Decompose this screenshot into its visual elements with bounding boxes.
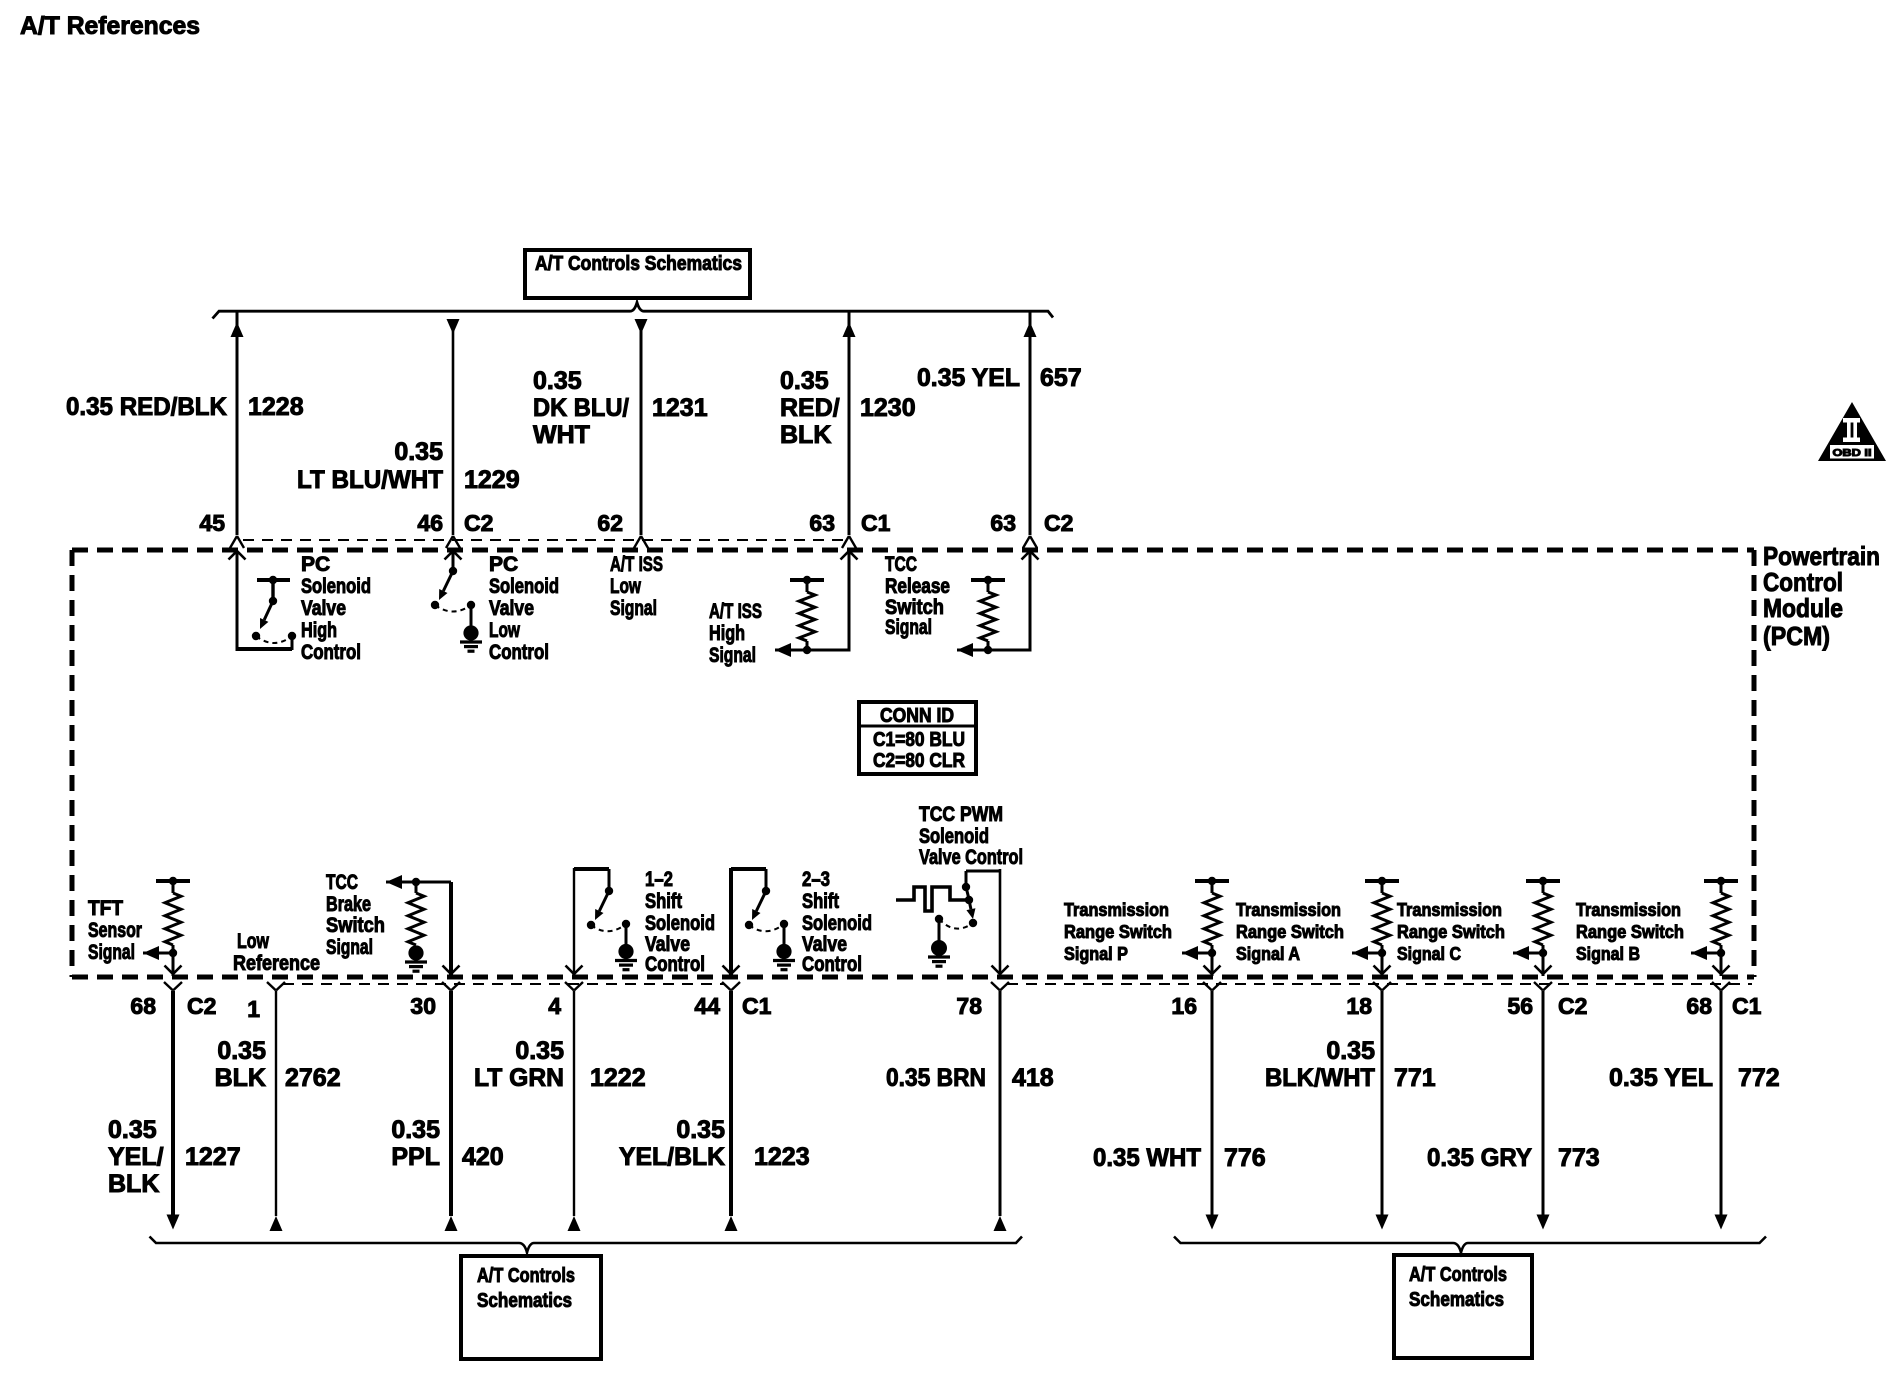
pin 78 (956, 993, 982, 1019)
svg-text:Brake: Brake (326, 893, 371, 916)
arrow (TFT sensor signal) (143, 946, 173, 960)
svg-text:Valve Control: Valve Control (919, 846, 1023, 869)
chevron arrow out pin30 (443, 966, 460, 975)
throw arc 2-3 shift (749, 924, 784, 931)
resistor: Transmission Range Switch Signal A (1365, 877, 1399, 957)
svg-text:C2: C2 (187, 993, 216, 1019)
svg-text:1223: 1223 (754, 1143, 810, 1171)
svg-text:0.35: 0.35 (217, 1037, 266, 1065)
connector Y bottom x=451 (442, 982, 460, 991)
chevron arrow out (C) (1535, 966, 1552, 975)
svg-text:63: 63 (990, 510, 1016, 536)
svg-text:CONN ID: CONN ID (880, 705, 954, 727)
svg-text:Control: Control (301, 641, 361, 664)
pin 16 (1171, 993, 1197, 1019)
switch: PC Solenoid Valve High Control (252, 576, 296, 640)
label 0.35 YEL (772) (1609, 1064, 1713, 1092)
wire 418 (0.35 BRN) from pin78 (994, 991, 1007, 1231)
svg-text:DK BLU/: DK BLU/ (533, 394, 629, 422)
svg-text:LT GRN: LT GRN (474, 1064, 564, 1092)
top brace bus line (213, 303, 1054, 319)
label 772 (1738, 1064, 1780, 1092)
label 2-3 Shift Solenoid Valve Control (802, 868, 872, 976)
throw arc PC high (256, 636, 292, 643)
svg-text:Schematics: Schematics (477, 1290, 572, 1312)
svg-text:0.35 GRY: 0.35 GRY (1427, 1144, 1532, 1172)
wire TFT resistor to pin68C2 (172, 953, 175, 976)
svg-text:Signal P: Signal P (1064, 944, 1128, 964)
svg-text:Valve: Valve (301, 597, 346, 620)
svg-text:RED/: RED/ (780, 394, 840, 422)
svg-text:1228: 1228 (248, 393, 304, 421)
label 0.35 RED/BLK (1230) (780, 367, 840, 449)
svg-text:1–2: 1–2 (645, 868, 673, 891)
ground (PC solenoid low) (460, 642, 482, 651)
chevron arrow out pin78 (992, 966, 1009, 975)
svg-text:A/T Controls Schematics: A/T Controls Schematics (535, 253, 742, 275)
svg-text:Range Switch: Range Switch (1576, 922, 1684, 942)
reference box: A/T Controls Schematics (bottom left) (461, 1256, 601, 1359)
svg-text:A/T Controls: A/T Controls (477, 1265, 575, 1287)
wire 1222 (0.35 LT GRN) from pin4 (568, 991, 581, 1231)
connector Y bottom x=1212 (1203, 982, 1221, 991)
label 1222 (590, 1064, 646, 1092)
svg-text:16: 16 (1171, 993, 1197, 1019)
svg-text:Low: Low (489, 619, 520, 642)
svg-text:1230: 1230 (860, 394, 916, 422)
pin 63 C1 (809, 510, 890, 536)
svg-text:TFT: TFT (88, 897, 123, 920)
pin 56 C2 (1507, 993, 1587, 1019)
svg-text:A/T ISS: A/T ISS (709, 600, 762, 623)
title: A/T References (20, 12, 200, 40)
svg-text:Signal: Signal (885, 616, 932, 639)
connector Y bottom x=1382 (1373, 982, 1391, 991)
svg-text:0.35: 0.35 (515, 1037, 564, 1065)
wire trans range B to border (1720, 953, 1723, 976)
solenoid coil 1-2 shift (618, 944, 633, 959)
resistor: A/T ISS High Signal (790, 576, 824, 654)
label A/T ISS High Signal (709, 600, 762, 667)
svg-text:Signal: Signal (610, 597, 657, 620)
svg-text:2–3: 2–3 (802, 868, 830, 891)
svg-text:0.35: 0.35 (533, 367, 582, 395)
label 0.35 PPL (391, 1116, 440, 1171)
svg-text:420: 420 (462, 1143, 504, 1171)
label 1231 (652, 394, 708, 422)
svg-text:C1: C1 (861, 510, 891, 536)
solenoid coil PC low (463, 625, 478, 640)
svg-text:TCC: TCC (326, 871, 358, 894)
resistor: TFT Sensor Signal (156, 877, 190, 957)
solenoid coil TCC PWM (931, 940, 947, 956)
CONN ID table (859, 702, 976, 774)
connector Y bottom x=1721 (1712, 982, 1730, 991)
connector Y pin62 (634, 536, 648, 548)
label 0.35 DK BLU/WHT (533, 367, 629, 449)
svg-text:Range Switch: Range Switch (1397, 922, 1505, 942)
arrow (trans range switch signal B) (1691, 946, 1721, 960)
svg-text:Signal: Signal (709, 644, 756, 667)
svg-text:68: 68 (130, 993, 156, 1019)
pin 63 C2 (990, 510, 1073, 536)
label 418 (1012, 1064, 1054, 1092)
wire 771 (0.35 BLK/WHT) from pin18 (1376, 991, 1389, 1230)
pin 68 C2 (130, 993, 216, 1019)
svg-text:657: 657 (1040, 364, 1082, 392)
svg-text:0.35 YEL: 0.35 YEL (917, 364, 1020, 392)
label PC Solenoid Valve High Control (301, 553, 371, 664)
label 1229 (464, 466, 520, 494)
wire 420 (0.35 PPL) from pin30 (445, 991, 458, 1231)
label 0.35 BLK/WHT (1265, 1037, 1375, 1092)
pin 30 (410, 993, 436, 1019)
svg-text:A/T References: A/T References (20, 12, 200, 40)
svg-text:Transmission: Transmission (1576, 900, 1681, 920)
label 776 (1224, 1144, 1266, 1172)
label 0.35 YEL/BLK (1223) (619, 1116, 725, 1171)
label TFT Sensor Signal (88, 897, 142, 964)
svg-text:High: High (709, 622, 745, 645)
connector Y bottom x=731 (722, 982, 740, 991)
svg-text:Range Switch: Range Switch (1236, 922, 1344, 942)
label Transmission Range Switch Signal A (1236, 900, 1344, 964)
switch: 1-2 Shift Solenoid Valve Control (587, 887, 630, 944)
resistor: TCC Release Switch Signal (971, 576, 1005, 654)
wire 1227 (0.35 YEL/BLK) from pin68C2 (167, 991, 180, 1230)
wire 657 (0.35 YEL) pin63C2 vertical (1024, 311, 1037, 535)
svg-text:Signal A: Signal A (1236, 944, 1300, 964)
ground (TCC brake) (405, 962, 427, 971)
label 1-2 Shift Solenoid Valve Control (645, 868, 715, 976)
label A/T ISS Low Signal (610, 553, 663, 620)
label Low Reference (233, 930, 320, 975)
wire 773 (0.35 GRY) from pin56C2 (1537, 991, 1550, 1230)
chevron arrow out (A) (1374, 966, 1391, 975)
svg-text:45: 45 (199, 510, 225, 536)
svg-text:Control: Control (802, 953, 862, 976)
svg-text:56: 56 (1507, 993, 1533, 1019)
svg-text:BLK: BLK (780, 421, 831, 449)
svg-text:Reference: Reference (233, 952, 320, 975)
pin 45 (199, 510, 225, 536)
wire trans range A to border (1381, 953, 1384, 976)
svg-text:Low: Low (610, 575, 641, 598)
svg-text:0.35: 0.35 (394, 438, 443, 466)
PWM waveform symbol (896, 887, 966, 911)
svg-text:1222: 1222 (590, 1064, 646, 1092)
label 1223 (754, 1143, 810, 1171)
arrow (trans range switch signal P) (1182, 946, 1212, 960)
solenoid coil 2-3 shift (776, 944, 791, 959)
svg-text:PPL: PPL (391, 1143, 440, 1171)
svg-text:OBD II: OBD II (1833, 447, 1872, 459)
wire pin63C2 to TCC release resistor (957, 551, 1032, 650)
svg-text:Range Switch: Range Switch (1064, 922, 1172, 942)
label Transmission Range Switch Signal B (1576, 900, 1684, 964)
svg-text:Release: Release (885, 575, 950, 598)
svg-text:C2: C2 (464, 510, 493, 536)
wire 772 (0.35 YEL) from pin68C1 (1715, 991, 1728, 1230)
svg-text:(PCM): (PCM) (1763, 621, 1830, 651)
svg-text:2762: 2762 (285, 1064, 341, 1092)
resistor: Transmission Range Switch Signal C (1526, 877, 1560, 957)
resistor: Transmission Range Switch Signal P (1195, 877, 1229, 957)
label 0.35 BLK (215, 1037, 266, 1092)
wire TCC brake to pin30 (449, 882, 453, 976)
svg-text:Valve: Valve (489, 597, 534, 620)
svg-text:Solenoid: Solenoid (645, 912, 715, 935)
connector Y bottom x=276 (267, 982, 285, 991)
svg-text:C1: C1 (742, 993, 772, 1019)
svg-text:18: 18 (1346, 993, 1372, 1019)
svg-text:Low: Low (237, 930, 269, 953)
label 0.35 WHT (1093, 1144, 1201, 1172)
svg-text:68: 68 (1686, 993, 1712, 1019)
svg-text:C1=80 BLU: C1=80 BLU (873, 729, 965, 751)
connector Y bottom x=1543 (1534, 982, 1552, 991)
arrow (TCC release switch signal) (957, 643, 973, 657)
arrow (trans range switch signal A) (1352, 946, 1382, 960)
svg-text:C2: C2 (1558, 993, 1587, 1019)
solenoid coil TCC brake (408, 945, 423, 960)
label Powertrain Control Module (PCM) (1763, 541, 1880, 651)
connector Y pin46 (446, 536, 460, 548)
svg-text:Switch: Switch (326, 914, 385, 937)
pin 62 (597, 510, 623, 536)
svg-text:YEL/BLK: YEL/BLK (619, 1143, 725, 1171)
label 1230 (860, 394, 916, 422)
switch: PC Solenoid Valve Low Control (431, 567, 475, 627)
label TCC Release Switch Signal (885, 553, 950, 639)
throw arc PC low (435, 605, 471, 612)
label 0.35 YEL/BLK (1227) (108, 1116, 164, 1198)
svg-text:776: 776 (1224, 1144, 1266, 1172)
svg-text:Signal C: Signal C (1397, 944, 1461, 964)
svg-text:63: 63 (809, 510, 835, 536)
top connector thin dashed line (243, 539, 846, 541)
svg-text:A/T ISS: A/T ISS (610, 553, 663, 576)
svg-text:Control: Control (645, 953, 705, 976)
svg-text:High: High (301, 619, 337, 642)
wire 2762 (0.35 BLK) from pin1 (270, 991, 283, 1231)
bottom connector thin dashed line (right) (1007, 983, 1752, 985)
svg-text:30: 30 (410, 993, 436, 1019)
wire pin4 to 1-2 shift switch (574, 868, 609, 976)
bottom brace (left group) (150, 1237, 1023, 1253)
connector Y bottom x=574 (565, 982, 583, 991)
arrow (trans range switch signal C) (1513, 946, 1543, 960)
svg-text:Shift: Shift (645, 890, 682, 913)
chevron arrow out pin4 (566, 966, 583, 975)
resistor: Transmission Range Switch Signal B (1704, 877, 1738, 957)
svg-text:A/T Controls: A/T Controls (1409, 1264, 1507, 1286)
label TCC Brake Switch Signal (326, 871, 385, 959)
PCM bottom border (72, 975, 1754, 980)
connector Y pin63C1 (842, 536, 856, 548)
label Transmission Range Switch Signal C (1397, 900, 1505, 964)
svg-text:0.35 WHT: 0.35 WHT (1093, 1144, 1201, 1172)
svg-text:Solenoid: Solenoid (919, 825, 989, 848)
label 0.35 BRN (886, 1064, 986, 1092)
arrow (A/T ISS high signal) (775, 643, 791, 657)
arrow (TCC brake switch signal) (386, 875, 451, 889)
wire pin78 to TCC PWM switch (966, 869, 1000, 976)
chevron arrow into pin46 (445, 551, 462, 560)
svg-text:BLK: BLK (215, 1064, 266, 1092)
label 771 (1394, 1064, 1436, 1092)
svg-text:0.35: 0.35 (391, 1116, 440, 1144)
svg-text:0.35: 0.35 (1326, 1037, 1375, 1065)
svg-text:PC: PC (489, 553, 518, 576)
pin 4 (548, 993, 561, 1019)
svg-text:PC: PC (301, 553, 330, 576)
wire pin63C1 to ISS high resistor (775, 551, 851, 650)
svg-text:Solenoid: Solenoid (489, 575, 559, 598)
svg-text:0.35: 0.35 (780, 367, 829, 395)
label PC Solenoid Valve Low Control (489, 553, 559, 664)
svg-text:Transmission: Transmission (1064, 900, 1169, 920)
chevron arrow into pin63C2 (1022, 551, 1039, 560)
switch: TCC PWM Solenoid Valve Control (935, 883, 977, 941)
svg-text:Schematics: Schematics (1409, 1289, 1504, 1311)
svg-text:WHT: WHT (533, 421, 590, 449)
label Transmission Range Switch Signal P (1064, 900, 1172, 964)
svg-text:Sensor: Sensor (88, 919, 142, 942)
wire 776 (0.35 WHT) from pin16 (1206, 991, 1219, 1230)
wire 1228 (0.35 RED/BLK) pin45 vertical (231, 311, 244, 535)
reference box: A/T Controls Schematics (top) (525, 250, 750, 298)
svg-text:46: 46 (417, 510, 443, 536)
svg-text:0.35 BRN: 0.35 BRN (886, 1064, 986, 1092)
pin 18 (1346, 993, 1372, 1019)
svg-text:BLK: BLK (108, 1170, 159, 1198)
svg-text:44: 44 (694, 993, 720, 1019)
pin 1 (247, 996, 260, 1022)
label 0.35 RED/BLK (66, 393, 227, 421)
svg-text:0.35 YEL: 0.35 YEL (1609, 1064, 1713, 1092)
OBD II symbol (1818, 402, 1886, 461)
chevron arrow out (P) (1204, 966, 1221, 975)
wire 1231 (0.35 DK BLU/WHT) pin62 vertical (635, 319, 648, 535)
label 0.35 LT GRN (474, 1037, 564, 1092)
ground (1-2 shift) (615, 961, 637, 970)
PCM top border (72, 548, 1754, 553)
label 1228 (248, 393, 304, 421)
connector Y pin63C2 (1023, 536, 1037, 548)
chevron arrow out pin68C2 (165, 966, 182, 975)
PCM right border (1752, 550, 1757, 977)
label 1227 (185, 1143, 241, 1171)
chevron arrow into pin45 (229, 551, 246, 560)
svg-text:1231: 1231 (652, 394, 708, 422)
svg-text:0.35 RED/BLK: 0.35 RED/BLK (66, 393, 227, 421)
wire pin46 to PC solenoid low switch (452, 551, 455, 571)
wire trans range P to border (1211, 953, 1214, 976)
svg-text:Control: Control (489, 641, 549, 664)
wire trans range C to border (1542, 953, 1545, 976)
connector Y pin45 (230, 536, 244, 548)
svg-text:78: 78 (956, 993, 982, 1019)
svg-text:1: 1 (247, 996, 260, 1022)
wire 1229 (0.35 LT BLU/WHT) pin46 vertical (447, 319, 460, 535)
label 657 (1040, 364, 1082, 392)
label 0.35 YEL (917, 364, 1020, 392)
svg-text:Signal: Signal (326, 936, 373, 959)
resistor: TCC Brake Switch Signal (408, 878, 424, 945)
svg-text:418: 418 (1012, 1064, 1054, 1092)
svg-text:TCC: TCC (885, 553, 917, 576)
svg-text:Transmission: Transmission (1397, 900, 1502, 920)
svg-text:773: 773 (1558, 1144, 1600, 1172)
bottom connector thin dashed line (left) (283, 983, 724, 985)
label 420 (462, 1143, 504, 1171)
svg-text:Shift: Shift (802, 890, 839, 913)
svg-text:LT BLU/WHT: LT BLU/WHT (297, 466, 443, 494)
pin 44 C1 (694, 993, 771, 1019)
throw arc TCC PWM (939, 919, 973, 929)
svg-text:C2: C2 (1044, 510, 1073, 536)
wire 1223 (0.35 YEL/BLK) from pin44C1 (725, 991, 738, 1231)
svg-text:4: 4 (548, 993, 561, 1019)
svg-text:62: 62 (597, 510, 623, 536)
wire pin45 to PC solenoid high switch (236, 551, 293, 650)
svg-text:Module: Module (1763, 593, 1843, 623)
label 2762 (285, 1064, 341, 1092)
connector Y bottom x=1000 (991, 982, 1009, 991)
label 0.35 GRY (1427, 1144, 1532, 1172)
svg-text:Solenoid: Solenoid (301, 575, 371, 598)
svg-text:BLK/WHT: BLK/WHT (1265, 1064, 1375, 1092)
svg-text:0.35: 0.35 (108, 1116, 157, 1144)
svg-text:771: 771 (1394, 1064, 1436, 1092)
pin 46 C2 (417, 510, 493, 536)
chevron arrow into pin63C1 (841, 551, 858, 560)
reference box: A/T Controls Schematics (bottom right) (1394, 1255, 1532, 1358)
svg-text:Signal B: Signal B (1576, 944, 1640, 964)
label 0.35 LT BLU/WHT (297, 438, 443, 494)
chevron arrow out (B) (1713, 966, 1730, 975)
PCM left border (70, 550, 75, 977)
label 773 (1558, 1144, 1600, 1172)
connector Y bottom x=173 (164, 982, 182, 991)
chevron arrow out pin44C1 (723, 966, 740, 975)
ground (2-3 shift) (773, 961, 795, 970)
svg-text:772: 772 (1738, 1064, 1780, 1092)
label TCC PWM Solenoid Valve Control (919, 803, 1023, 869)
svg-text:Signal: Signal (88, 941, 135, 964)
bottom brace (right group) (1174, 1237, 1766, 1253)
svg-text:0.35: 0.35 (676, 1116, 725, 1144)
svg-text:1227: 1227 (185, 1143, 241, 1171)
svg-text:1229: 1229 (464, 466, 520, 494)
svg-text:C1: C1 (1732, 993, 1762, 1019)
ground (TCC PWM) (928, 957, 950, 966)
wire pin44C1 to 2-3 shift switch (731, 868, 766, 976)
svg-text:C2=80 CLR: C2=80 CLR (873, 750, 965, 772)
wire 1230 (0.35 RED/BLK) pin63C1 vertical (843, 311, 856, 535)
switch: 2-3 Shift Solenoid Valve Control (745, 887, 788, 944)
svg-text:Solenoid: Solenoid (802, 912, 872, 935)
svg-text:TCC PWM: TCC PWM (919, 803, 1003, 826)
svg-text:YEL/: YEL/ (108, 1143, 164, 1171)
throw arc 1-2 shift (591, 924, 626, 931)
svg-text:Transmission: Transmission (1236, 900, 1341, 920)
pin 68 C1 (1686, 993, 1761, 1019)
